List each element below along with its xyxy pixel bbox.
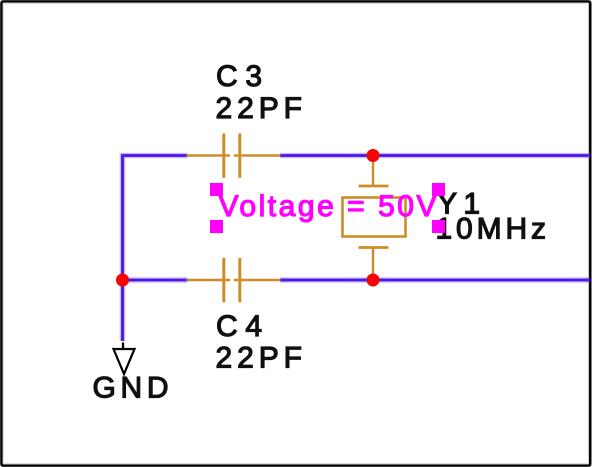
svg-text:Voltage = 50V: Voltage = 50V (219, 190, 437, 223)
svg-text:GND: GND (93, 372, 169, 405)
svg-text:22PF: 22PF (216, 92, 303, 125)
svg-text:22PF: 22PF (216, 342, 303, 375)
